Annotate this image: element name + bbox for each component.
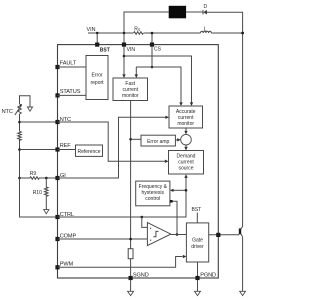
wire [185, 145, 187, 147]
svg-text:monitor: monitor [122, 93, 139, 99]
box Frequency hysteresis control [136, 181, 170, 206]
pin CTRL [55, 215, 59, 219]
wire [151, 33, 153, 45]
wire NTC to pin [20, 121, 58, 123]
wire [173, 201, 177, 234]
wire gate driver to PGND [197, 262, 199, 276]
wire [207, 12, 243, 226]
box Accurate current monitor [169, 106, 203, 128]
ground [27, 107, 32, 111]
svg-text:control: control [145, 196, 160, 202]
svg-text:VIN: VIN [87, 27, 96, 33]
svg-text:STATUS: STATUS [60, 89, 81, 95]
ground [130, 280, 132, 291]
wire PWM net [58, 257, 183, 268]
box Gate driver [186, 223, 208, 262]
wire [142, 217, 148, 227]
svg-text:SGND: SGND [133, 273, 149, 279]
wire COMP net [58, 238, 148, 240]
wire freq feedback [173, 189, 186, 191]
wire [124, 56, 192, 103]
svg-text:RS: RS [134, 26, 141, 32]
wire [242, 237, 244, 291]
wire NTC net [58, 122, 166, 161]
ground [197, 280, 199, 291]
resistor Rs [134, 32, 144, 35]
summing node [181, 134, 192, 145]
wire VIN net [123, 47, 125, 75]
resistor R1 [18, 131, 22, 140]
wire [131, 138, 141, 140]
svg-text:Gate: Gate [192, 237, 203, 243]
pin BST top [95, 43, 99, 47]
resistor R9 [20, 177, 58, 180]
wire [196, 213, 198, 223]
svg-text:REF: REF [60, 143, 72, 149]
resistor R2 [128, 249, 133, 259]
IC block U1 [58, 45, 219, 278]
pin FAULT [55, 65, 59, 69]
wire [88, 32, 243, 34]
pin STATUS [55, 93, 59, 97]
junction [123, 32, 126, 35]
wire CTRL net [58, 178, 187, 218]
svg-text:monitor: monitor [177, 121, 194, 127]
wire GI net [58, 117, 166, 178]
transistor Q1 [239, 228, 241, 234]
wire [185, 128, 187, 131]
box Reference [76, 145, 103, 156]
wire [136, 66, 152, 68]
junction [45, 177, 48, 180]
comparator U2 [147, 223, 170, 246]
junction [18, 121, 21, 124]
wire REF to pin [20, 149, 58, 151]
wire fast leg [130, 101, 132, 277]
pin PGND [195, 276, 199, 280]
junction [96, 32, 99, 35]
svg-text:source: source [178, 165, 193, 171]
svg-text:CS: CS [154, 47, 162, 53]
svg-text:D: D [204, 4, 208, 10]
wire [175, 139, 177, 141]
svg-text:BST: BST [192, 207, 202, 213]
svg-text:Error: Error [91, 73, 102, 79]
port square [170, 200, 173, 203]
pin NTC [55, 120, 59, 124]
wire CS net [151, 47, 153, 67]
junction [18, 177, 21, 180]
svg-text:R10: R10 [33, 190, 42, 196]
pin COMP [55, 237, 59, 241]
wire [186, 11, 203, 13]
svg-text:driver: driver [191, 244, 204, 250]
junction [129, 138, 132, 141]
wire gate out [209, 234, 239, 236]
svg-text:L: L [204, 26, 207, 32]
pin CS top [150, 43, 154, 47]
junction [129, 238, 132, 241]
svg-text:FAULT: FAULT [60, 61, 77, 67]
box Demand current source [169, 151, 204, 175]
fuse F1 [169, 6, 186, 18]
svg-text:report: report [90, 80, 104, 86]
wire [136, 67, 181, 103]
svg-text:PWM: PWM [60, 261, 74, 267]
inductor L [201, 31, 212, 33]
wire REF [58, 149, 76, 151]
wire [19, 114, 21, 131]
box Error report [86, 56, 108, 100]
wire [20, 178, 58, 217]
svg-text:Reference: Reference [77, 149, 100, 155]
wire [124, 12, 169, 33]
pin VIN top [122, 43, 126, 47]
wire [96, 33, 98, 45]
wire [58, 66, 87, 68]
resistor R10 [45, 178, 49, 210]
ground [44, 210, 49, 214]
diode D [203, 10, 207, 15]
svg-text:Error amp: Error amp [147, 139, 169, 145]
junction [241, 32, 244, 35]
junction [141, 216, 144, 219]
pin REF [55, 147, 59, 151]
wire [58, 94, 87, 96]
svg-text:NTC: NTC [2, 109, 13, 115]
pin BST right [216, 233, 220, 237]
box Fast current monitor [113, 78, 148, 101]
svg-text:BST: BST [100, 47, 110, 53]
junction [18, 148, 21, 151]
svg-text:R9: R9 [30, 171, 37, 177]
junction [151, 32, 154, 35]
svg-text:PGND: PGND [200, 273, 216, 279]
pin SGND [129, 276, 133, 280]
wire [20, 96, 31, 107]
pin PWM [55, 265, 59, 269]
junction [176, 233, 179, 236]
pin GI [55, 176, 59, 180]
svg-text:VIN: VIN [127, 47, 136, 53]
wire [19, 140, 21, 178]
wire comparator output [171, 234, 187, 236]
wire [123, 33, 125, 45]
ground [240, 291, 246, 295]
box Error amp [141, 135, 175, 146]
